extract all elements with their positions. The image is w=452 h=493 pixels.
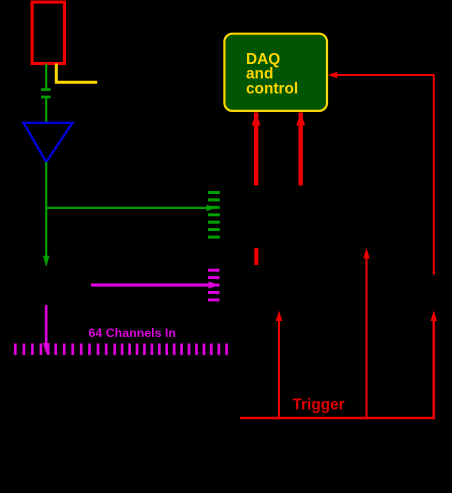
wire capacitor to amplifier (green): [45, 97, 47, 124]
trigger bus wire (red): [240, 319, 434, 418]
shaper output wire (magenta): [91, 283, 211, 286]
input wire vertical (magenta): [45, 305, 48, 344]
DAQ data bus arrow 2 (thick red): [296, 113, 305, 186]
svg-text:Trigger: Trigger: [293, 397, 345, 414]
amplifier A1 (blue triangle): [24, 123, 73, 162]
control return wire (red): [331, 75, 434, 275]
inter-stage link bar (thick red): [254, 248, 258, 265]
shaper comb (magenta dashes): [208, 270, 220, 300]
fanout branch wire (green): [46, 207, 209, 209]
DAQ and control box U1: [224, 34, 327, 111]
trigger arrow left (red): [278, 319, 280, 418]
arrowhead down (magenta): [43, 343, 50, 354]
signal wire from amplifier down (green): [45, 162, 47, 257]
64-channel input comb (magenta ticks): [15, 344, 226, 356]
HV tap wire (yellow): [56, 64, 97, 83]
arrowhead up right riser (red): [431, 311, 438, 322]
trigger arrow mid (red): [366, 257, 368, 418]
arrowhead up left (red): [276, 311, 283, 322]
arrowhead right (green): [207, 205, 217, 211]
coupling capacitor C1: [41, 90, 51, 97]
detector box D1 (red rectangle): [32, 2, 64, 63]
wire detector to capacitor (green): [45, 64, 47, 90]
arrowhead up mid (red): [363, 248, 370, 259]
arrowhead down (green): [43, 256, 49, 267]
fanout comb (green dashes): [208, 193, 220, 238]
DAQ data bus arrow 1 (thick red): [252, 113, 261, 186]
arrowhead left into DAQ (red): [328, 72, 338, 79]
arrowhead right (magenta): [209, 281, 220, 288]
svg-text:control: control: [246, 80, 298, 97]
svg-text:64 Channels In: 64 Channels In: [89, 326, 176, 340]
